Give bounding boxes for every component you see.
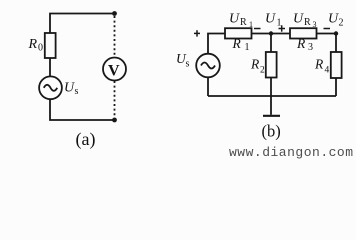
svg-text:R: R [296, 36, 306, 51]
svg-text:U: U [328, 12, 339, 27]
svg-text:1: 1 [277, 18, 282, 29]
svg-text:s: s [186, 59, 190, 70]
svg-text:U: U [293, 12, 304, 27]
svg-text:U: U [229, 12, 240, 27]
svg-text:R: R [250, 57, 260, 72]
svg-text:U: U [265, 12, 276, 27]
svg-text:R: R [314, 57, 324, 72]
svg-text:1: 1 [245, 42, 250, 53]
svg-text:0: 0 [38, 43, 43, 54]
svg-text:R: R [304, 17, 311, 28]
svg-text:R: R [240, 17, 247, 28]
svg-text:R: R [28, 37, 38, 52]
svg-text:V: V [108, 62, 120, 79]
svg-text:1: 1 [249, 20, 253, 29]
svg-text:2: 2 [260, 66, 265, 76]
svg-text:2: 2 [339, 18, 344, 29]
svg-text:www.diangon.com: www.diangon.com [229, 145, 354, 160]
svg-text:4: 4 [325, 66, 330, 76]
svg-text:3: 3 [313, 20, 317, 29]
svg-text:(a): (a) [76, 129, 96, 150]
svg-text:(b): (b) [262, 122, 281, 141]
svg-text:U: U [64, 80, 75, 95]
svg-text:R: R [232, 36, 242, 51]
svg-text:s: s [75, 86, 79, 97]
svg-text:3: 3 [308, 42, 313, 53]
